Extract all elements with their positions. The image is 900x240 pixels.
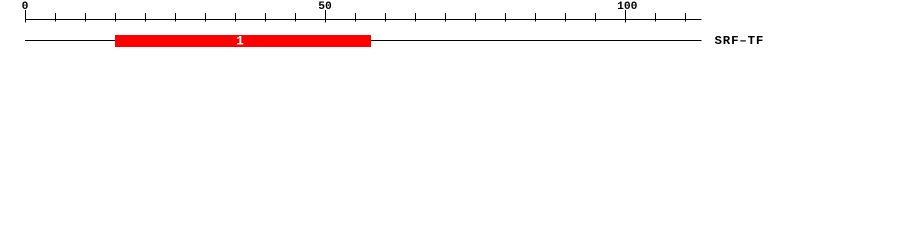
svg-text:SRF–TF: SRF–TF: [715, 34, 765, 48]
svg-text:0: 0: [22, 1, 29, 13]
svg-text:1: 1: [236, 34, 244, 49]
svg-text:50: 50: [318, 1, 332, 13]
svg-text:100: 100: [617, 1, 638, 13]
